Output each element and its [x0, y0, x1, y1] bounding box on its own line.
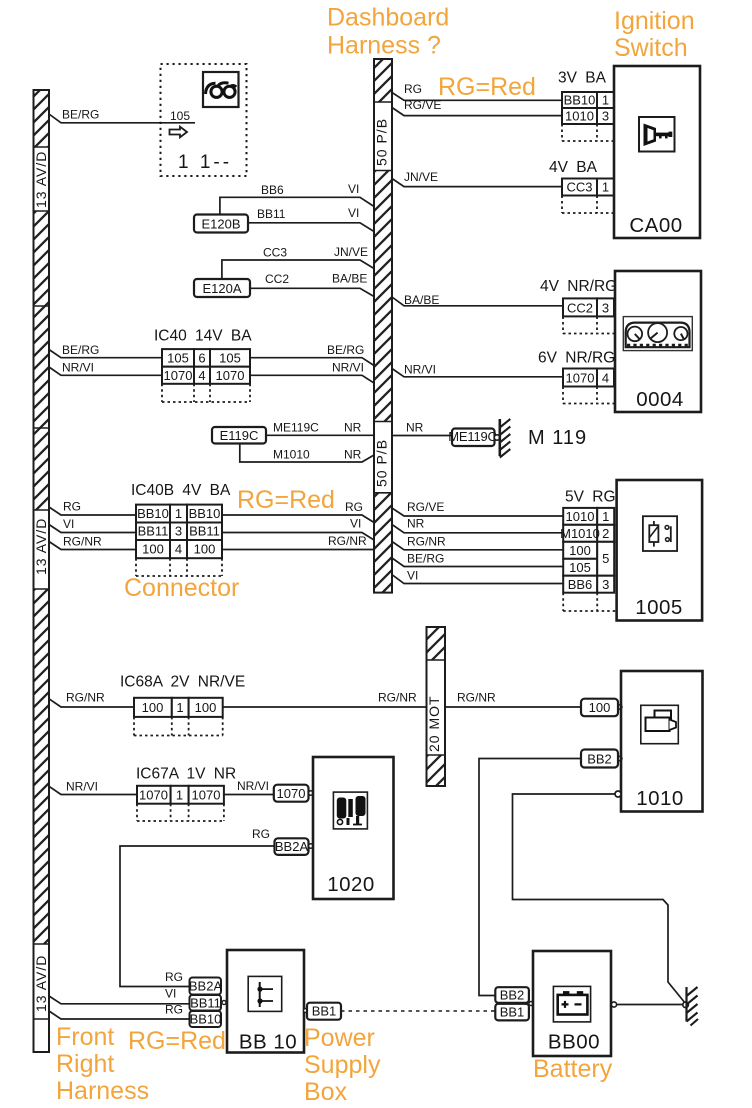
svg-text:Box: Box	[304, 1078, 348, 1106]
svg-text:RG: RG	[165, 1003, 183, 1017]
svg-text:Harness ?: Harness ?	[327, 32, 441, 60]
relay module 1005	[617, 480, 703, 621]
wire battery positive to ground	[611, 1002, 683, 1007]
connector E120B	[194, 215, 248, 233]
wire BE/RG to relay 11	[49, 108, 195, 123]
svg-text:NR/VI: NR/VI	[404, 363, 436, 377]
svg-text:5V RG: 5V RG	[565, 489, 616, 506]
svg-text:CC2: CC2	[265, 272, 289, 286]
wire BB2 from 1010 to battery	[479, 756, 622, 995]
wire NR/VI through IC40	[49, 361, 374, 384]
coil pack icon in 1020	[333, 792, 367, 829]
svg-text:RG/VE: RG/VE	[407, 500, 444, 514]
wire JN/VE to ignition switch	[392, 170, 562, 187]
wire NR to 1005	[392, 517, 563, 533]
svg-text:BB2A: BB2A	[189, 979, 223, 994]
wire RG/NR to 1005	[392, 535, 563, 550]
svg-text:M1010: M1010	[560, 526, 600, 541]
svg-text:RG: RG	[165, 970, 183, 984]
wire RG/NR from 20MOT into starter 100 pin	[618, 705, 622, 709]
svg-text:RG/VE: RG/VE	[404, 98, 441, 112]
wire NR/VI to cluster	[392, 363, 563, 377]
wire NR to ground M119	[392, 421, 452, 436]
svg-text:RG: RG	[252, 827, 270, 841]
svg-text:1: 1	[176, 700, 183, 715]
svg-text:1 1--: 1 1--	[178, 152, 232, 173]
svg-text:1: 1	[602, 93, 609, 108]
svg-text:BB11: BB11	[257, 207, 286, 221]
svg-text:BB1: BB1	[312, 1004, 337, 1019]
svg-text:JN/VE: JN/VE	[334, 245, 368, 259]
module 1020	[313, 757, 394, 899]
svg-text:RG: RG	[404, 82, 422, 96]
connector 4V NR/RG on 0004	[540, 278, 617, 334]
svg-text:100: 100	[142, 700, 164, 715]
key icon in CA00	[639, 117, 675, 152]
fuse link icon in BB10	[248, 976, 282, 1011]
wire CC3 / JN/VE	[222, 245, 374, 279]
svg-text:RG=Red: RG=Red	[237, 486, 335, 514]
svg-text:IC40B 4V BA: IC40B 4V BA	[131, 482, 231, 499]
svg-text:VI: VI	[350, 517, 361, 531]
svg-text:Supply: Supply	[304, 1051, 381, 1079]
svg-text:RG/NR: RG/NR	[66, 691, 105, 705]
svg-text:IC67A 1V NR: IC67A 1V NR	[136, 766, 236, 783]
svg-text:IC68A 2V NR/VE: IC68A 2V NR/VE	[120, 674, 245, 691]
wire BB6 / VI	[220, 182, 374, 215]
connector BB2 on 1010	[581, 750, 618, 768]
starter icon in 1010	[641, 705, 679, 743]
svg-text:M1010: M1010	[273, 448, 310, 462]
wire CC2 / BA/BE	[250, 272, 374, 297]
svg-text:IC40 14V BA: IC40 14V BA	[154, 328, 252, 345]
svg-text:105: 105	[167, 351, 189, 366]
svg-text:NR: NR	[344, 421, 362, 435]
wire VI from bus to BB11	[49, 987, 189, 1004]
svg-text:4: 4	[198, 368, 205, 383]
svg-text:6V NR/RG: 6V NR/RG	[538, 350, 615, 367]
svg-text:BB 10: BB 10	[239, 1031, 297, 1054]
svg-text:Harness: Harness	[56, 1077, 149, 1105]
wire M1010 / NR	[240, 444, 374, 463]
svg-text:1070: 1070	[216, 368, 245, 383]
svg-text:13 AV/D: 13 AV/D	[33, 151, 49, 208]
wire ME119C / NR	[266, 421, 374, 436]
svg-text:1: 1	[602, 509, 609, 524]
svg-text:5: 5	[602, 551, 609, 566]
svg-text:CC3: CC3	[263, 246, 287, 260]
svg-text:13 AV/D: 13 AV/D	[33, 518, 49, 575]
arrow symbol in relay 11	[170, 127, 188, 138]
svg-text:VI: VI	[63, 517, 74, 531]
svg-text:BB11: BB11	[138, 524, 169, 539]
svg-text:3V BA: 3V BA	[558, 70, 607, 87]
connector 4V BA on CA00	[549, 159, 614, 213]
svg-text:BA/BE: BA/BE	[332, 272, 367, 286]
instrument cluster 0004	[615, 271, 701, 412]
svg-text:NR/VI: NR/VI	[237, 779, 269, 793]
connector IC40 14V BA	[154, 328, 252, 403]
svg-text:100: 100	[194, 542, 216, 557]
connector E120A	[194, 279, 250, 297]
svg-text:1: 1	[175, 506, 182, 521]
svg-text:1070: 1070	[139, 788, 168, 803]
connector BB1 on battery	[495, 1002, 533, 1021]
coil icon	[203, 72, 239, 107]
power supply box BB10	[227, 950, 304, 1054]
svg-text:BB11: BB11	[189, 524, 220, 539]
svg-text:1070: 1070	[277, 786, 306, 801]
label Front Right Harness	[56, 1023, 149, 1105]
svg-text:105: 105	[219, 351, 241, 366]
svg-text:RG=Red: RG=Red	[128, 1027, 226, 1055]
svg-text:4V BA: 4V BA	[549, 159, 598, 176]
svg-text:1070: 1070	[192, 788, 221, 803]
svg-text:NR/VI: NR/VI	[62, 361, 94, 375]
svg-text:Front: Front	[56, 1023, 114, 1051]
gauge icon in 0004	[623, 317, 692, 351]
svg-text:JN/VE: JN/VE	[404, 170, 438, 184]
svg-text:1020: 1020	[327, 873, 375, 896]
svg-text:BE/RG: BE/RG	[62, 108, 99, 122]
svg-text:100: 100	[589, 700, 611, 715]
wire RG from BB2A(1020) down to BB10	[120, 827, 275, 987]
svg-text:1070: 1070	[566, 371, 595, 386]
connector 1070 on 1020	[274, 785, 313, 802]
svg-text:VI: VI	[407, 569, 418, 583]
svg-text:BB1: BB1	[500, 1005, 525, 1020]
svg-text:CA00: CA00	[629, 214, 682, 237]
svg-text:BE/RG: BE/RG	[327, 343, 364, 357]
connector ME119C	[448, 429, 499, 447]
svg-text:50 P/B: 50 P/B	[374, 118, 390, 166]
svg-text:BA/BE: BA/BE	[404, 293, 439, 307]
svg-text:4: 4	[602, 371, 609, 386]
svg-text:100: 100	[142, 542, 164, 557]
svg-text:BB10: BB10	[564, 93, 596, 108]
relay unit 11-- (dotted outline)	[161, 64, 247, 176]
svg-text:1010: 1010	[636, 787, 684, 810]
svg-text:NR: NR	[344, 448, 362, 462]
svg-text:BB00: BB00	[548, 1031, 600, 1054]
wire NR/VI through IC67A to 1020	[49, 779, 313, 795]
svg-text:Dashboard: Dashboard	[327, 4, 449, 32]
connector IC40B 4V BA	[131, 482, 231, 576]
wire BE/RG through IC40	[49, 343, 374, 366]
connector BB2A on BB10	[189, 978, 223, 995]
svg-text:1005: 1005	[635, 596, 683, 619]
svg-text:NR/VI: NR/VI	[66, 780, 98, 794]
svg-text:E119C: E119C	[220, 428, 259, 443]
connector IC68A 2V NR/VE	[120, 674, 245, 736]
svg-text:BB2: BB2	[587, 752, 612, 767]
svg-text:RG/NR: RG/NR	[63, 535, 102, 549]
svg-text:CC3: CC3	[566, 180, 592, 195]
wire RG/VE to ignition switch	[392, 98, 562, 116]
svg-text:RG/NR: RG/NR	[378, 691, 417, 705]
ignition switch CA00	[614, 66, 700, 238]
svg-text:BB6: BB6	[568, 577, 593, 592]
connector IC67A 1V NR	[136, 766, 236, 822]
wire RG from bus to BB10 pin	[49, 1003, 189, 1020]
svg-text:VI: VI	[348, 182, 359, 196]
wire VI through IC40B	[49, 517, 374, 541]
bus 20 MOT (engine harness trunk)	[426, 627, 445, 786]
svg-text:4V NR/RG: 4V NR/RG	[540, 278, 617, 295]
svg-text:100: 100	[569, 543, 591, 558]
svg-text:RG: RG	[345, 500, 363, 514]
svg-text:2: 2	[602, 526, 609, 541]
svg-text:Battery: Battery	[533, 1055, 613, 1083]
svg-text:BB2A: BB2A	[275, 839, 309, 854]
svg-text:ME119C: ME119C	[273, 421, 319, 435]
battery icon in BB00	[553, 986, 590, 1022]
svg-text:20 MOT: 20 MOT	[426, 695, 442, 752]
svg-text:E120B: E120B	[201, 217, 240, 232]
connector 5V RG on 1005	[560, 489, 616, 612]
svg-text:3: 3	[602, 577, 609, 592]
connector BB10 on BB10	[190, 1011, 222, 1027]
svg-text:E120A: E120A	[202, 281, 241, 296]
svg-text:0004: 0004	[636, 388, 684, 411]
svg-text:BB10: BB10	[137, 506, 169, 521]
dashed wire BB1 to battery BB1	[341, 1010, 495, 1012]
svg-text:BB10: BB10	[189, 506, 221, 521]
svg-text:NR: NR	[407, 517, 425, 531]
wire VI to 1005	[392, 569, 563, 584]
connector E119C	[212, 427, 266, 444]
ground (battery)	[683, 987, 698, 1026]
wire RG/VE to 1005	[392, 500, 563, 516]
wire RG/NR through IC40B	[49, 534, 374, 550]
bus 50 P/B (dashboard harness trunk)	[374, 59, 393, 593]
svg-text:BE/RG: BE/RG	[407, 552, 444, 566]
connector 6V NR/RG on 0004	[538, 350, 615, 404]
svg-text:3: 3	[175, 524, 182, 539]
svg-text:105: 105	[569, 560, 591, 575]
svg-text:Ignition: Ignition	[614, 7, 695, 35]
label Power Supply Box	[304, 1024, 381, 1106]
svg-text:100: 100	[195, 700, 217, 715]
wire BA/BE to cluster	[392, 293, 563, 307]
svg-text:BB2: BB2	[500, 988, 525, 1003]
connector 3V BA on CA00	[558, 70, 614, 142]
svg-text:BE/RG: BE/RG	[62, 343, 99, 357]
svg-text:50 P/B: 50 P/B	[374, 439, 390, 487]
wire RG to ignition switch	[392, 82, 562, 100]
svg-text:M 119: M 119	[528, 427, 587, 449]
svg-text:1010: 1010	[565, 109, 594, 124]
wire RG/NR through IC68A to 1010	[49, 691, 581, 708]
bus 13 AV/D (front right harness trunk)	[33, 90, 49, 1052]
svg-text:Switch: Switch	[614, 34, 688, 62]
connector BB2 on battery	[495, 987, 529, 1003]
svg-text:Connector: Connector	[124, 574, 239, 602]
svg-text:VI: VI	[165, 987, 176, 1001]
svg-text:VI: VI	[348, 206, 359, 220]
svg-text:1: 1	[602, 180, 609, 195]
starter motor 1010	[621, 671, 703, 812]
connector BB2A on 1020	[275, 838, 313, 855]
connector BB11 on BB10	[190, 995, 227, 1011]
svg-text:BB6: BB6	[261, 183, 284, 197]
connector 100 on 1010	[581, 699, 618, 717]
svg-text:4: 4	[175, 542, 182, 557]
label Ignition Switch	[614, 7, 695, 62]
svg-text:6: 6	[198, 351, 205, 366]
relay icon in 1005	[643, 516, 677, 551]
svg-text:NR: NR	[406, 421, 424, 435]
battery BB00	[533, 951, 611, 1056]
svg-text:RG=Red: RG=Red	[438, 73, 536, 101]
svg-text:RG: RG	[63, 500, 81, 514]
svg-text:RG/NR: RG/NR	[407, 535, 446, 549]
wire from 1010 ground terminal to battery ground	[513, 791, 686, 1004]
svg-text:BB11: BB11	[190, 996, 221, 1011]
svg-text:1070: 1070	[164, 368, 193, 383]
label Dashboard Harness ?	[327, 4, 449, 60]
wire BB11 / VI	[248, 206, 374, 232]
svg-text:13 AV/D: 13 AV/D	[33, 955, 49, 1012]
svg-text:1010: 1010	[566, 509, 595, 524]
svg-text:3: 3	[602, 109, 609, 124]
ground M119	[500, 419, 587, 458]
svg-text:NR/VI: NR/VI	[332, 361, 364, 375]
connector BB1 on BB10	[304, 1003, 342, 1020]
svg-text:ME119C: ME119C	[448, 429, 496, 444]
svg-text:105: 105	[170, 109, 190, 123]
wire RG through IC40B	[49, 500, 374, 523]
svg-text:BB10: BB10	[190, 1012, 222, 1027]
svg-text:1: 1	[176, 788, 183, 803]
svg-text:RG/NR: RG/NR	[457, 691, 496, 705]
svg-text:RG/NR: RG/NR	[328, 534, 367, 548]
svg-text:CC2: CC2	[567, 301, 593, 316]
svg-text:3: 3	[602, 301, 609, 316]
wire BE/RG to 1005	[392, 552, 563, 567]
svg-text:Right: Right	[56, 1050, 114, 1078]
svg-text:Power: Power	[304, 1024, 375, 1052]
